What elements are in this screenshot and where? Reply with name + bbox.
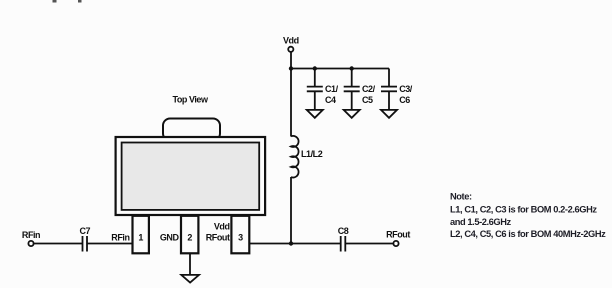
svg-text:C3/: C3/ [399, 84, 413, 94]
svg-text:C7: C7 [79, 226, 90, 236]
svg-text:RFout: RFout [386, 230, 410, 240]
node D junction [350, 66, 354, 70]
svg-text:RFin: RFin [22, 230, 40, 240]
svg-text:Vdd: Vdd [283, 36, 299, 46]
capacitor C2/C5 [344, 69, 376, 106]
capacitor C8 [338, 226, 349, 252]
terminal Vdd [283, 36, 299, 69]
wire node A up to inductor [290, 177, 292, 244]
terminal RFout [386, 230, 410, 247]
svg-text:L1/L2: L1/L2 [301, 149, 323, 159]
svg-text:L2, C4, C5, C6 is for BOM 40MH: L2, C4, C5, C6 is for BOM 40MHz-2GHz [450, 229, 606, 239]
node A junction [289, 241, 293, 245]
svg-text:1: 1 [138, 233, 143, 243]
wire C1/C4 to ground [314, 91, 316, 110]
svg-text:2: 2 [187, 233, 192, 243]
wire C7 to pin 1 [87, 243, 133, 245]
node B junction (Vdd rail) [289, 66, 293, 70]
svg-text:L1, C1, C2, C3 is for BOM 0.2-: L1, C1, C2, C3 is for BOM 0.2-2.6GHz [450, 205, 597, 215]
wire pin 2 to ground [189, 253, 191, 275]
wire inductor to Vdd node [290, 69, 292, 137]
svg-text:RFin: RFin [111, 233, 129, 243]
pin 2 (GND) [160, 216, 199, 254]
svg-text:GND: GND [160, 233, 180, 243]
note text [450, 192, 606, 240]
capacitor C7 [79, 226, 90, 252]
wire C3/C6 to ground [388, 91, 390, 110]
terminal RFin [22, 230, 40, 246]
node C junction [313, 66, 317, 70]
svg-text:C4: C4 [325, 95, 336, 105]
ground (C2/C5) [344, 110, 360, 118]
pin 1 (RFin) [111, 216, 149, 254]
svg-text:Note:: Note: [450, 192, 472, 202]
wire RFin to C7 [34, 243, 83, 245]
pin 3 (Vdd / RFout) [206, 216, 250, 254]
ground (C3/C6) [381, 110, 397, 118]
svg-text:C5: C5 [362, 95, 373, 105]
svg-text:C8: C8 [338, 226, 349, 236]
svg-text:RFout: RFout [206, 233, 230, 243]
capacitor C3/C6 [381, 69, 413, 106]
ground (C1/C4) [307, 110, 323, 118]
IC U1 package (top view) [116, 95, 266, 216]
svg-text:Top View: Top View [172, 95, 209, 105]
svg-text:C1/: C1/ [325, 84, 339, 94]
wire C8 to RFout [345, 243, 393, 245]
cropped text remnant marks at top edge [53, 0, 82, 3]
wire C2/C5 to ground [351, 91, 353, 110]
svg-text:C6: C6 [399, 95, 410, 105]
svg-text:3: 3 [238, 233, 243, 243]
svg-text:and 1.5-2.6GHz: and 1.5-2.6GHz [450, 217, 512, 227]
svg-text:Vdd: Vdd [214, 222, 230, 232]
wire node A to C8 [291, 243, 341, 245]
svg-text:C2/: C2/ [362, 84, 376, 94]
inductor L1/L2 [291, 136, 323, 178]
ground (pin 2) [181, 275, 199, 283]
wire Vdd rail horizontal [291, 68, 389, 70]
wire pin 3 to node A [249, 243, 291, 245]
capacitor C1/C4 [307, 69, 339, 106]
